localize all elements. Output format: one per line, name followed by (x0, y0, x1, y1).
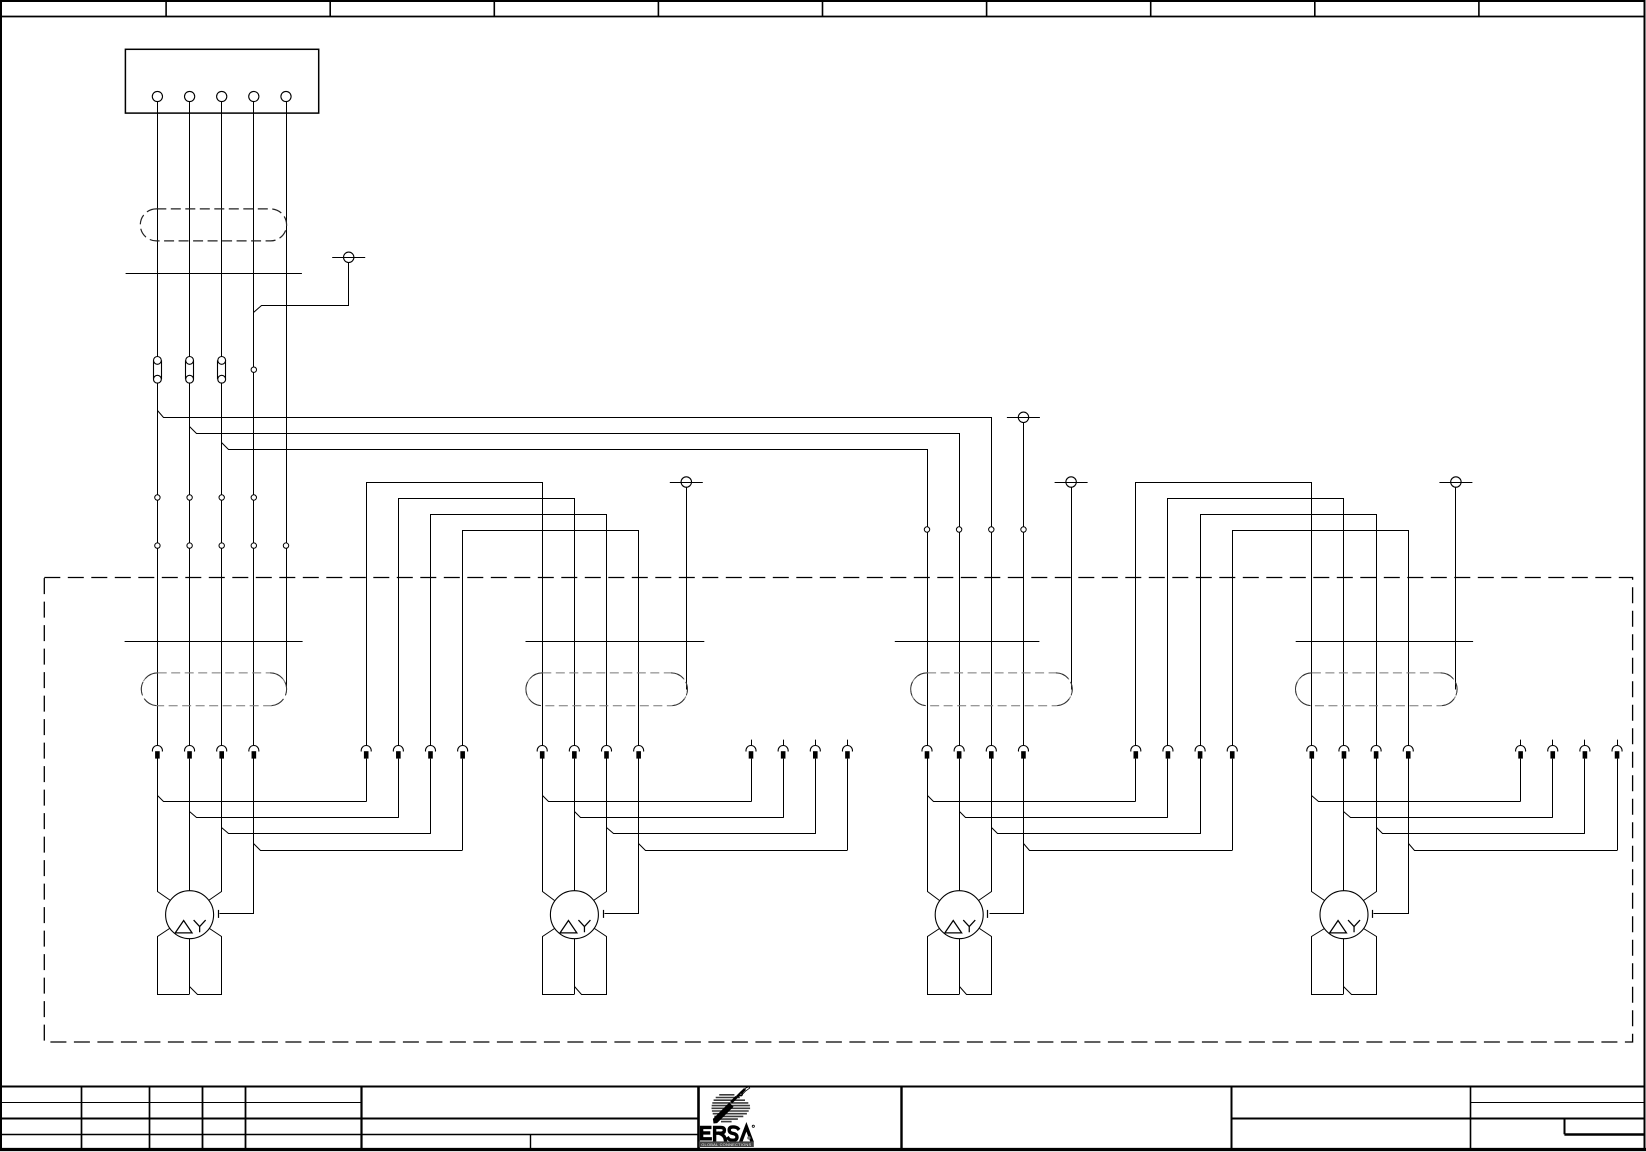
motor M1 wye symbol (194, 920, 206, 932)
svg-text:GLOBAL CONNECTIONS: GLOBAL CONNECTIONS (701, 1142, 751, 1147)
cable marker W3 (dashed stadium) (911, 673, 1073, 706)
title block notch bottom line (1564, 1133, 1644, 1135)
motor M2 winding loop centre wire (574, 939, 576, 994)
PE terminal B tick (1007, 417, 1040, 419)
junction circle row2 wire 1 (155, 543, 160, 548)
motor M2 wye symbol (578, 920, 590, 932)
wire terminal C screen drop (686, 487, 688, 689)
wire link group1-group2 phase 4 (463, 531, 639, 746)
connector X30 pin 1 (922, 746, 932, 759)
potential separator line (top) (126, 273, 302, 275)
connector X40 pin 4 (1403, 746, 1413, 759)
group3 motor wire W (979, 759, 992, 901)
junction circle row2 wire 4 (251, 543, 256, 548)
cable marker W2 (dashed stadium) (526, 673, 688, 706)
connector X10 pin 3 (217, 746, 227, 759)
group4 motor wire V (1343, 759, 1345, 891)
group3 motor wire U (928, 759, 940, 901)
wire feed L1 upper segment (157, 102, 159, 357)
group3 branch wire to right pin 2 (960, 812, 1168, 818)
group1 branch wire to right pin 4 (254, 844, 463, 851)
group1 motor wire W (209, 759, 222, 901)
bottom frame border (thick) (0, 1148, 1646, 1151)
wire link group1-group2 phase 1 (367, 483, 543, 746)
group1 motor wire V (189, 759, 191, 891)
group3 thermal sensor tick (987, 910, 989, 918)
title block row line y1102 right (1470, 1102, 1644, 1104)
junction circle row2 wire 3 (219, 543, 224, 548)
motor M1 winding loop centre wire (189, 939, 191, 994)
connector X31 pin 3 (1195, 746, 1205, 759)
group4 branch wire to right pin 2 (1344, 812, 1553, 818)
motor M4 wye symbol (1348, 920, 1360, 932)
terminal X0:5 circle (281, 91, 291, 101)
connector X30 pin 4 (1018, 746, 1028, 759)
title block row line y1102 left (1, 1102, 361, 1104)
connector X21 pin 3 (810, 740, 820, 759)
PE terminal A circle (344, 252, 354, 262)
motor M2 circle (550, 891, 598, 939)
wire link group1-group2 phase 2 (399, 499, 575, 746)
cable marker W4 (dashed stadium) (1296, 673, 1458, 706)
PE terminal D tick (1055, 482, 1088, 484)
group2 motor wire W (594, 759, 607, 901)
title block row line y1134 left (1, 1134, 698, 1136)
top reference strip column dividers (166, 2, 1479, 18)
title block column x901 (900, 1087, 902, 1150)
wire terminal D screen drop (1071, 487, 1073, 689)
group2 branch wire to right pin 4 (639, 844, 848, 851)
wire terminal E screen drop (1455, 487, 1457, 689)
group2 motor wire V (574, 759, 576, 891)
group4 potential separator line (1296, 641, 1473, 643)
connector X41 pin 4 (1612, 740, 1622, 759)
group4 branch wire to right pin 3 (1377, 828, 1585, 834)
terminal block X0 outline (125, 49, 318, 113)
connector X30 pin 2 (954, 746, 964, 759)
wire below fuse F2 (189, 383, 191, 745)
junction circle group3 drop (924, 527, 929, 532)
group1 branch wire to right pin 3 (222, 828, 431, 834)
motor M4 circle (1320, 891, 1368, 939)
terminal X0:3 circle (217, 91, 227, 101)
terminal X0:2 circle (185, 91, 195, 101)
connector X20 pin 3 (602, 746, 612, 759)
wire bus line 2 (L2 to group3) (190, 427, 960, 746)
wire below fuse F3 (221, 383, 223, 745)
motor M1 winding loop left (158, 929, 190, 995)
junction circle group3 drop (989, 527, 994, 532)
connector X21 pin 2 (778, 740, 788, 759)
motor M3 winding loop right (960, 929, 992, 995)
connector X20 pin 4 (634, 746, 644, 759)
connector X20 pin 2 (569, 746, 579, 759)
wire link group3-group4 phase 2 (1168, 499, 1344, 746)
connector X10 pin 1 (152, 746, 162, 759)
motor M3 winding loop left (928, 929, 960, 995)
title block column x698 (logo cell left edge) (697, 1087, 700, 1150)
junction circle row1 wire 4 (251, 495, 256, 500)
motor M2 winding loop left (543, 929, 575, 995)
group2 thermal sensor wire (605, 759, 639, 914)
connector X41 pin 1 (1516, 740, 1526, 759)
title block column x149 (149, 1087, 151, 1150)
group1 thermal sensor tick (218, 910, 220, 918)
group1 thermal sensor wire (220, 759, 254, 914)
group3 branch wire to right pin 1 (928, 796, 1136, 802)
connector X41 pin 2 (1548, 740, 1558, 759)
junction circle feed L4 (251, 367, 256, 372)
PE terminal C tick (670, 482, 703, 484)
wire link group3-group4 phase 1 (1136, 483, 1312, 746)
junction circle row1 wire 1 (155, 495, 160, 500)
group2 motor wire U (543, 759, 555, 901)
wire from terminal A to feed L4 (254, 263, 349, 313)
junction circle group3 drop (956, 527, 961, 532)
group1 branch wire to right pin 1 (158, 796, 367, 802)
wire link group3-group4 phase 3 (1201, 515, 1377, 746)
connector X40 pin 2 (1339, 746, 1349, 759)
PE terminal E circle (1451, 477, 1461, 487)
wire link group3-group4 phase 4 (1233, 531, 1409, 746)
fuse F3 (218, 357, 226, 384)
title block column x1232 (1231, 1087, 1233, 1150)
group4 motor wire U (1312, 759, 1325, 901)
terminal X0:1 circle (152, 91, 162, 101)
group4 branch wire to right pin 4 (1409, 844, 1618, 851)
machine enclosure (dashed rectangle) (44, 578, 1632, 1043)
wire below fuse F1 (157, 383, 159, 745)
PE terminal A tick (332, 257, 365, 259)
group2 thermal sensor tick (603, 910, 605, 918)
connector X11 pin 2 (393, 746, 403, 759)
wire terminal B down to group3 pin (1023, 423, 1025, 746)
wire feed L3 upper segment (221, 102, 223, 357)
cable marker W0 (dashed stadium) (140, 209, 286, 241)
terminal X0:4 circle (249, 91, 259, 101)
title block column x530 (bottom row only) (530, 1134, 532, 1149)
motor M1 delta symbol (175, 921, 192, 933)
motor M2 winding loop right (575, 929, 607, 995)
wire bus line 1 (L1 to group3) (158, 411, 992, 746)
wire bus line 3 (L3 to group3) (222, 443, 928, 746)
fuse F1 (154, 357, 162, 384)
PE terminal B circle (1018, 412, 1028, 422)
title block notch left edge x1564 (1564, 1118, 1566, 1134)
title block column x202 (202, 1087, 204, 1150)
junction circle group3 drop (1021, 527, 1026, 532)
connector X21 pin 4 (842, 740, 852, 759)
group1 potential separator line (125, 641, 303, 643)
group4 thermal sensor tick (1372, 910, 1374, 918)
connector X30 pin 3 (986, 746, 996, 759)
junction circle row2 wire 2 (187, 543, 192, 548)
connector X10 pin 2 (185, 746, 195, 759)
group4 motor wire W (1364, 759, 1377, 901)
connector X20 pin 1 (537, 746, 547, 759)
group3 motor wire V (959, 759, 961, 891)
title block column x81 (81, 1087, 83, 1150)
group2 potential separator line (526, 641, 705, 643)
title block column x1470 (1470, 1087, 1472, 1150)
connector X11 pin 1 (361, 746, 371, 759)
wire feed L2 upper segment (189, 102, 191, 357)
PE terminal D circle (1066, 477, 1076, 487)
group3 potential separator line (895, 641, 1040, 643)
motor M4 delta symbol (1330, 921, 1347, 933)
PE terminal E tick (1439, 482, 1472, 484)
group1 branch wire to right pin 2 (190, 812, 399, 818)
group2 branch wire to right pin 3 (607, 828, 816, 834)
top reference strip bottom line (1, 16, 1645, 18)
motor M1 winding loop right (190, 929, 222, 995)
junction circle row1 wire 3 (219, 495, 224, 500)
connector X31 pin 2 (1163, 746, 1173, 759)
connector X21 pin 1 (746, 740, 756, 759)
group3 branch wire to right pin 3 (992, 828, 1201, 834)
title block row line y1118 left (1, 1118, 698, 1120)
wire feed L4 full segment (253, 102, 255, 746)
connector X11 pin 3 (426, 746, 436, 759)
motor M4 winding loop centre wire (1343, 939, 1345, 994)
motor M1 circle (166, 891, 214, 939)
connector X41 pin 3 (1580, 740, 1590, 759)
group1 motor wire U (158, 759, 171, 901)
motor M2 delta symbol (560, 921, 577, 933)
ERSA company logo (699, 1087, 755, 1147)
PE terminal C circle (681, 477, 691, 487)
group2 branch wire to right pin 2 (575, 812, 784, 818)
title block column x361 (360, 1087, 362, 1150)
motor M3 wye symbol (963, 920, 975, 932)
motor M3 circle (935, 891, 983, 939)
wire link group1-group2 phase 3 (431, 515, 607, 746)
junction circle row1 wire 2 (187, 495, 192, 500)
connector X10 pin 4 (249, 746, 259, 759)
group4 thermal sensor wire (1374, 759, 1409, 914)
title block column x245 (245, 1087, 247, 1150)
motor M3 winding loop centre wire (959, 939, 961, 994)
group2 branch wire to right pin 1 (543, 796, 752, 802)
group3 branch wire to right pin 4 (1024, 844, 1233, 851)
connector X11 pin 4 (458, 746, 468, 759)
fuse F2 (186, 357, 194, 384)
junction circle row2 wire 5 (283, 543, 288, 548)
motor M3 delta symbol (945, 921, 962, 933)
connector X31 pin 1 (1131, 746, 1141, 759)
group3 thermal sensor wire (990, 759, 1024, 914)
group4 branch wire to right pin 1 (1312, 796, 1521, 802)
motor M4 winding loop right (1344, 929, 1377, 995)
connector X31 pin 4 (1227, 746, 1237, 759)
title block top line (1, 1086, 1645, 1088)
cable marker W1 (dashed stadium) (141, 673, 286, 706)
connector X40 pin 1 (1307, 746, 1317, 759)
title block row line y1118 right (1232, 1118, 1644, 1120)
wire feed PE/N segment (286, 102, 288, 690)
connector X40 pin 3 (1371, 746, 1381, 759)
motor M4 winding loop left (1312, 929, 1344, 995)
